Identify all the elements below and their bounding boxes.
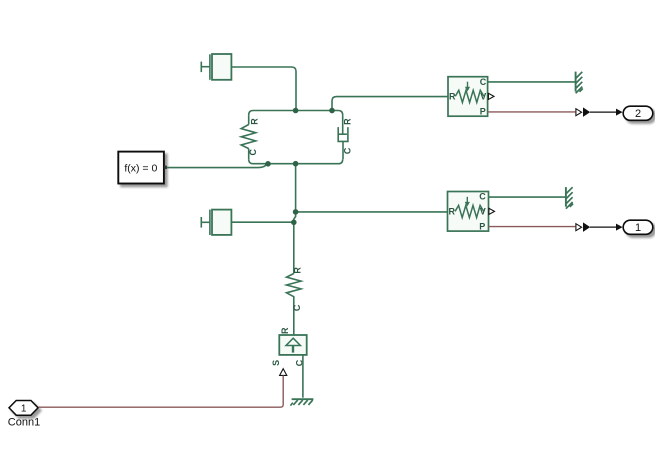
wire node C to sensor U2 R [296,211,448,213]
converter arrow (filled) [583,222,590,232]
signal arrowhead [616,109,623,116]
svg-text:1: 1 [21,404,27,415]
ideal translational motion sensor U2 (lower) [448,192,489,232]
svg-text:C: C [248,148,258,155]
signal arrowhead [616,224,623,231]
svg-text:C: C [342,147,352,154]
svg-text:C: C [292,304,302,311]
PS output arrow (hollow) [576,224,582,231]
svg-text:f(x) = 0: f(x) = 0 [124,163,157,175]
port arrow V U2 (hollow triangle) [489,208,495,214]
wire main vertical node B to node C [295,164,297,212]
signal wire to outport 1 [590,226,616,228]
svg-text:P: P [480,107,486,117]
wire Conn1 to force source S (maroon) [39,375,284,407]
solver configuration block f(x)=0 [118,152,167,184]
junction node B2 [293,161,299,167]
svg-text:C: C [479,192,486,202]
svg-text:R: R [280,327,290,334]
svg-text:1: 1 [635,222,641,234]
junction node A2 [329,108,335,114]
converter arrow (filled) [583,107,590,117]
mass block M1 (upper mass with anchor) [201,54,231,80]
ground (mechanical translational reference, bottom) [290,399,313,405]
wire U2 P (physical signal, maroon) [489,226,576,228]
ideal translational motion sensor U1 (upper) [448,77,488,117]
svg-text:C: C [480,77,487,87]
svg-text:S: S [271,360,281,366]
svg-text:R: R [342,118,352,125]
wire U2 C to reference [489,196,566,198]
ground (mechanical reference, lower right) [566,187,573,209]
svg-text:R: R [293,267,303,274]
svg-text:Conn1: Conn1 [8,417,40,429]
junction node B [265,161,271,167]
wire solver to node B [167,164,268,168]
wire node A2 to sensor U1 R [332,97,448,111]
signal wire to outport 2 [590,111,616,113]
svg-text:R: R [449,92,456,102]
svg-text:V: V [480,91,486,101]
mass block M2 (lower mass with anchor) [201,210,231,235]
spring branch (translational spring, left) [241,115,256,159]
wire loop top edge [249,111,343,116]
port arrow S (hollow triangle) [280,369,287,376]
outport 2 [623,106,653,120]
wire U1 P (physical signal, maroon) [488,111,576,113]
PS output arrow (hollow) [576,109,582,116]
wire U1 C to reference [488,81,576,83]
outport 1 [623,220,653,234]
ground (mechanical reference, upper right) [576,72,583,94]
spring R2 (vertical spring to force source) [287,222,302,335]
svg-text:V: V [480,206,486,216]
ideal force source block [279,335,306,355]
junction node C [293,209,299,215]
wire mass M1 to node A [231,67,296,111]
wire mass M2 to node D [231,221,293,223]
svg-text:R: R [449,207,456,217]
wire jog node C to node D [294,212,296,222]
port arrow V U1 (hollow triangle) [488,93,494,99]
wire force source C to ground [302,355,304,398]
connection port Conn1 [8,401,40,429]
wire loop bottom edge [249,159,343,164]
svg-text:P: P [479,221,485,231]
svg-text:2: 2 [635,108,641,120]
junction node D [291,220,297,226]
junction node A [293,108,299,114]
svg-text:R: R [249,118,259,125]
damper branch (translational damper, right) [338,115,348,159]
